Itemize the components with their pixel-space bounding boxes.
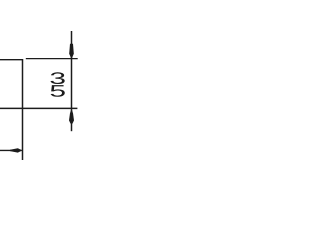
dimension text 35 : digit 3 (51, 72, 65, 84)
top extension line (26, 58, 78, 60)
object right edge / extension line (22, 59, 24, 160)
right arrowhead (10, 148, 22, 152)
bottom arrowhead (up) (69, 108, 74, 123)
horizontal dimension shaft (0, 149, 22, 151)
vertical dimension line (71, 31, 73, 131)
object top edge (0, 59, 23, 61)
top arrowhead (down) (69, 44, 74, 60)
object bottom edge + bottom extension line (0, 107, 77, 109)
dimension text 35 : digit 5 (51, 85, 65, 97)
